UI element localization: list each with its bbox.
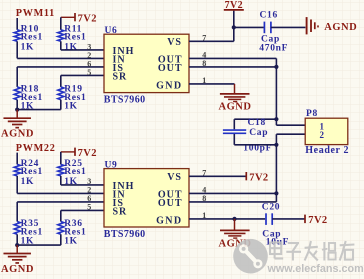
wire IS pin 6 to R18	[17, 66, 104, 68]
wire to C20	[235, 218, 266, 220]
resistor R25	[58, 164, 64, 176]
resistor R36	[58, 222, 64, 235]
svg-text:AGND: AGND	[1, 264, 34, 275]
ground AGND under U9	[234, 219, 236, 230]
svg-text:2: 2	[320, 130, 325, 140]
wire 7V2 to R11	[60, 17, 62, 30]
svg-text:7V2: 7V2	[308, 215, 327, 226]
svg-text:BTS7960: BTS7960	[104, 229, 146, 240]
wire OUT pin 4 U9	[189, 192, 276, 194]
ground AGND top-left	[16, 110, 18, 118]
capacitor C20	[265, 213, 267, 225]
junction OUT pin 4 U9	[274, 191, 278, 195]
wire PWM11 to R10	[16, 18, 18, 30]
svg-text:SR: SR	[113, 206, 128, 217]
watermark logo circle	[233, 239, 268, 274]
wire C20 to 7V2	[272, 218, 304, 220]
ground AGND bottom-left	[16, 245, 18, 253]
resistor R11	[58, 30, 64, 42]
wire VS pin 7 U9 to 7V2	[189, 175, 246, 177]
wire OUT pin 8	[189, 66, 276, 68]
svg-text:7V2: 7V2	[78, 13, 97, 24]
svg-text:VS: VS	[167, 37, 182, 48]
resistor R10	[14, 30, 20, 42]
wire R19 to AGND rail	[60, 100, 62, 110]
svg-text:7V2: 7V2	[249, 173, 268, 184]
header P8	[305, 118, 348, 144]
junction top-left AGND	[15, 108, 19, 112]
wire C18 bottom bracket	[233, 134, 235, 145]
svg-text:1K: 1K	[64, 43, 78, 53]
power 7V2 above R25	[61, 151, 75, 153]
watermark chinese characters	[270, 241, 354, 261]
power 7V2 right of C20	[304, 215, 306, 224]
svg-text:OUT: OUT	[158, 63, 183, 74]
resistor R35	[14, 222, 20, 235]
svg-text:7V2: 7V2	[78, 148, 97, 159]
svg-text:AGND: AGND	[219, 101, 252, 112]
svg-text:Cap: Cap	[249, 128, 268, 138]
wire IS pin 6 to R35	[17, 201, 104, 203]
wire header pin 1	[276, 124, 305, 126]
svg-text:470nF: 470nF	[259, 43, 288, 53]
junction OUT pin 8	[274, 65, 278, 69]
wire GND pin 1 U9	[189, 218, 235, 220]
wire AGND rail top-left	[17, 109, 61, 111]
wire PWM22 to R24	[16, 153, 18, 165]
wire VS pin 7 to 7V2	[189, 40, 234, 42]
junction 7V2 C16	[232, 25, 236, 29]
svg-text:1K: 1K	[21, 177, 35, 187]
svg-text:C18: C18	[248, 118, 266, 128]
svg-text:SR: SR	[113, 71, 128, 82]
wire SR pin 5 to R19	[61, 74, 104, 76]
IC U6 BTS7960	[104, 34, 189, 92]
wire R10 to IN pin 2	[16, 41, 18, 58]
svg-text:GND: GND	[156, 216, 182, 227]
svg-text:GND: GND	[156, 81, 182, 92]
resistor R19	[58, 87, 64, 100]
svg-text:P8: P8	[306, 109, 318, 119]
svg-text:C20: C20	[262, 202, 280, 212]
wire C16 to AGND	[271, 26, 306, 28]
svg-text:PWM22: PWM22	[16, 143, 56, 154]
svg-text:Header 2: Header 2	[305, 145, 349, 156]
power 7V2 top-left	[61, 16, 75, 18]
junction C18 top	[274, 117, 278, 121]
IC U9 BTS7960	[104, 169, 189, 227]
svg-text:www.elecfans.com: www.elecfans.com	[267, 263, 364, 275]
resistor R18	[14, 87, 20, 100]
junction C18 bottom	[274, 143, 278, 147]
wire OUT pin 8 U9	[189, 201, 276, 203]
resistor R24	[14, 164, 20, 176]
wire R11 to INH pin 3	[60, 41, 62, 50]
wire R36 to AGND rail	[60, 234, 62, 245]
capacitor C18	[223, 129, 246, 131]
wire SR pin 5 to R36	[61, 209, 104, 211]
svg-text:Res1: Res1	[64, 33, 86, 43]
svg-text:Res1: Res1	[21, 33, 43, 43]
wire header pin 2 bus	[276, 133, 305, 135]
svg-text:VS: VS	[167, 172, 182, 183]
svg-text:U6: U6	[105, 26, 118, 36]
svg-text:PWM11: PWM11	[16, 8, 55, 19]
wire R18 to AGND rail	[16, 100, 18, 110]
junction GND U9	[232, 217, 236, 221]
svg-text:1K: 1K	[64, 102, 78, 112]
svg-text:AGND: AGND	[324, 22, 357, 33]
power 7V2 at U9 VS	[245, 172, 247, 180]
svg-text:U9: U9	[105, 161, 118, 171]
svg-text:1K: 1K	[64, 236, 78, 246]
wire C18 top bracket	[234, 118, 276, 120]
wire AGND rail bottom-left	[17, 244, 61, 246]
ground AGND middle	[234, 84, 236, 93]
svg-text:C16: C16	[260, 10, 278, 20]
svg-text:1K: 1K	[21, 43, 35, 53]
wire 7V2 to R25	[60, 152, 62, 165]
wire R25 to INH pin 3 of U9	[60, 176, 62, 185]
svg-text:BTS7960: BTS7960	[104, 94, 146, 105]
wire to C16	[234, 26, 264, 28]
junction bottom-left AGND	[15, 243, 19, 247]
svg-text:AGND: AGND	[1, 129, 34, 140]
wire OUT pin 4 right bus	[189, 57, 276, 59]
svg-text:Res1: Res1	[21, 167, 43, 177]
wire R35 to AGND rail	[16, 234, 18, 245]
wire GND pin 1 to AGND	[189, 83, 235, 85]
svg-text:5: 5	[87, 203, 92, 212]
svg-text:OUT: OUT	[158, 198, 183, 209]
svg-text:5: 5	[87, 68, 92, 77]
wire R24 to IN pin 2 of U9	[16, 176, 18, 194]
ground AGND right rotated	[306, 17, 308, 34]
capacitor C16	[263, 22, 265, 34]
svg-text:Res1: Res1	[64, 167, 86, 177]
